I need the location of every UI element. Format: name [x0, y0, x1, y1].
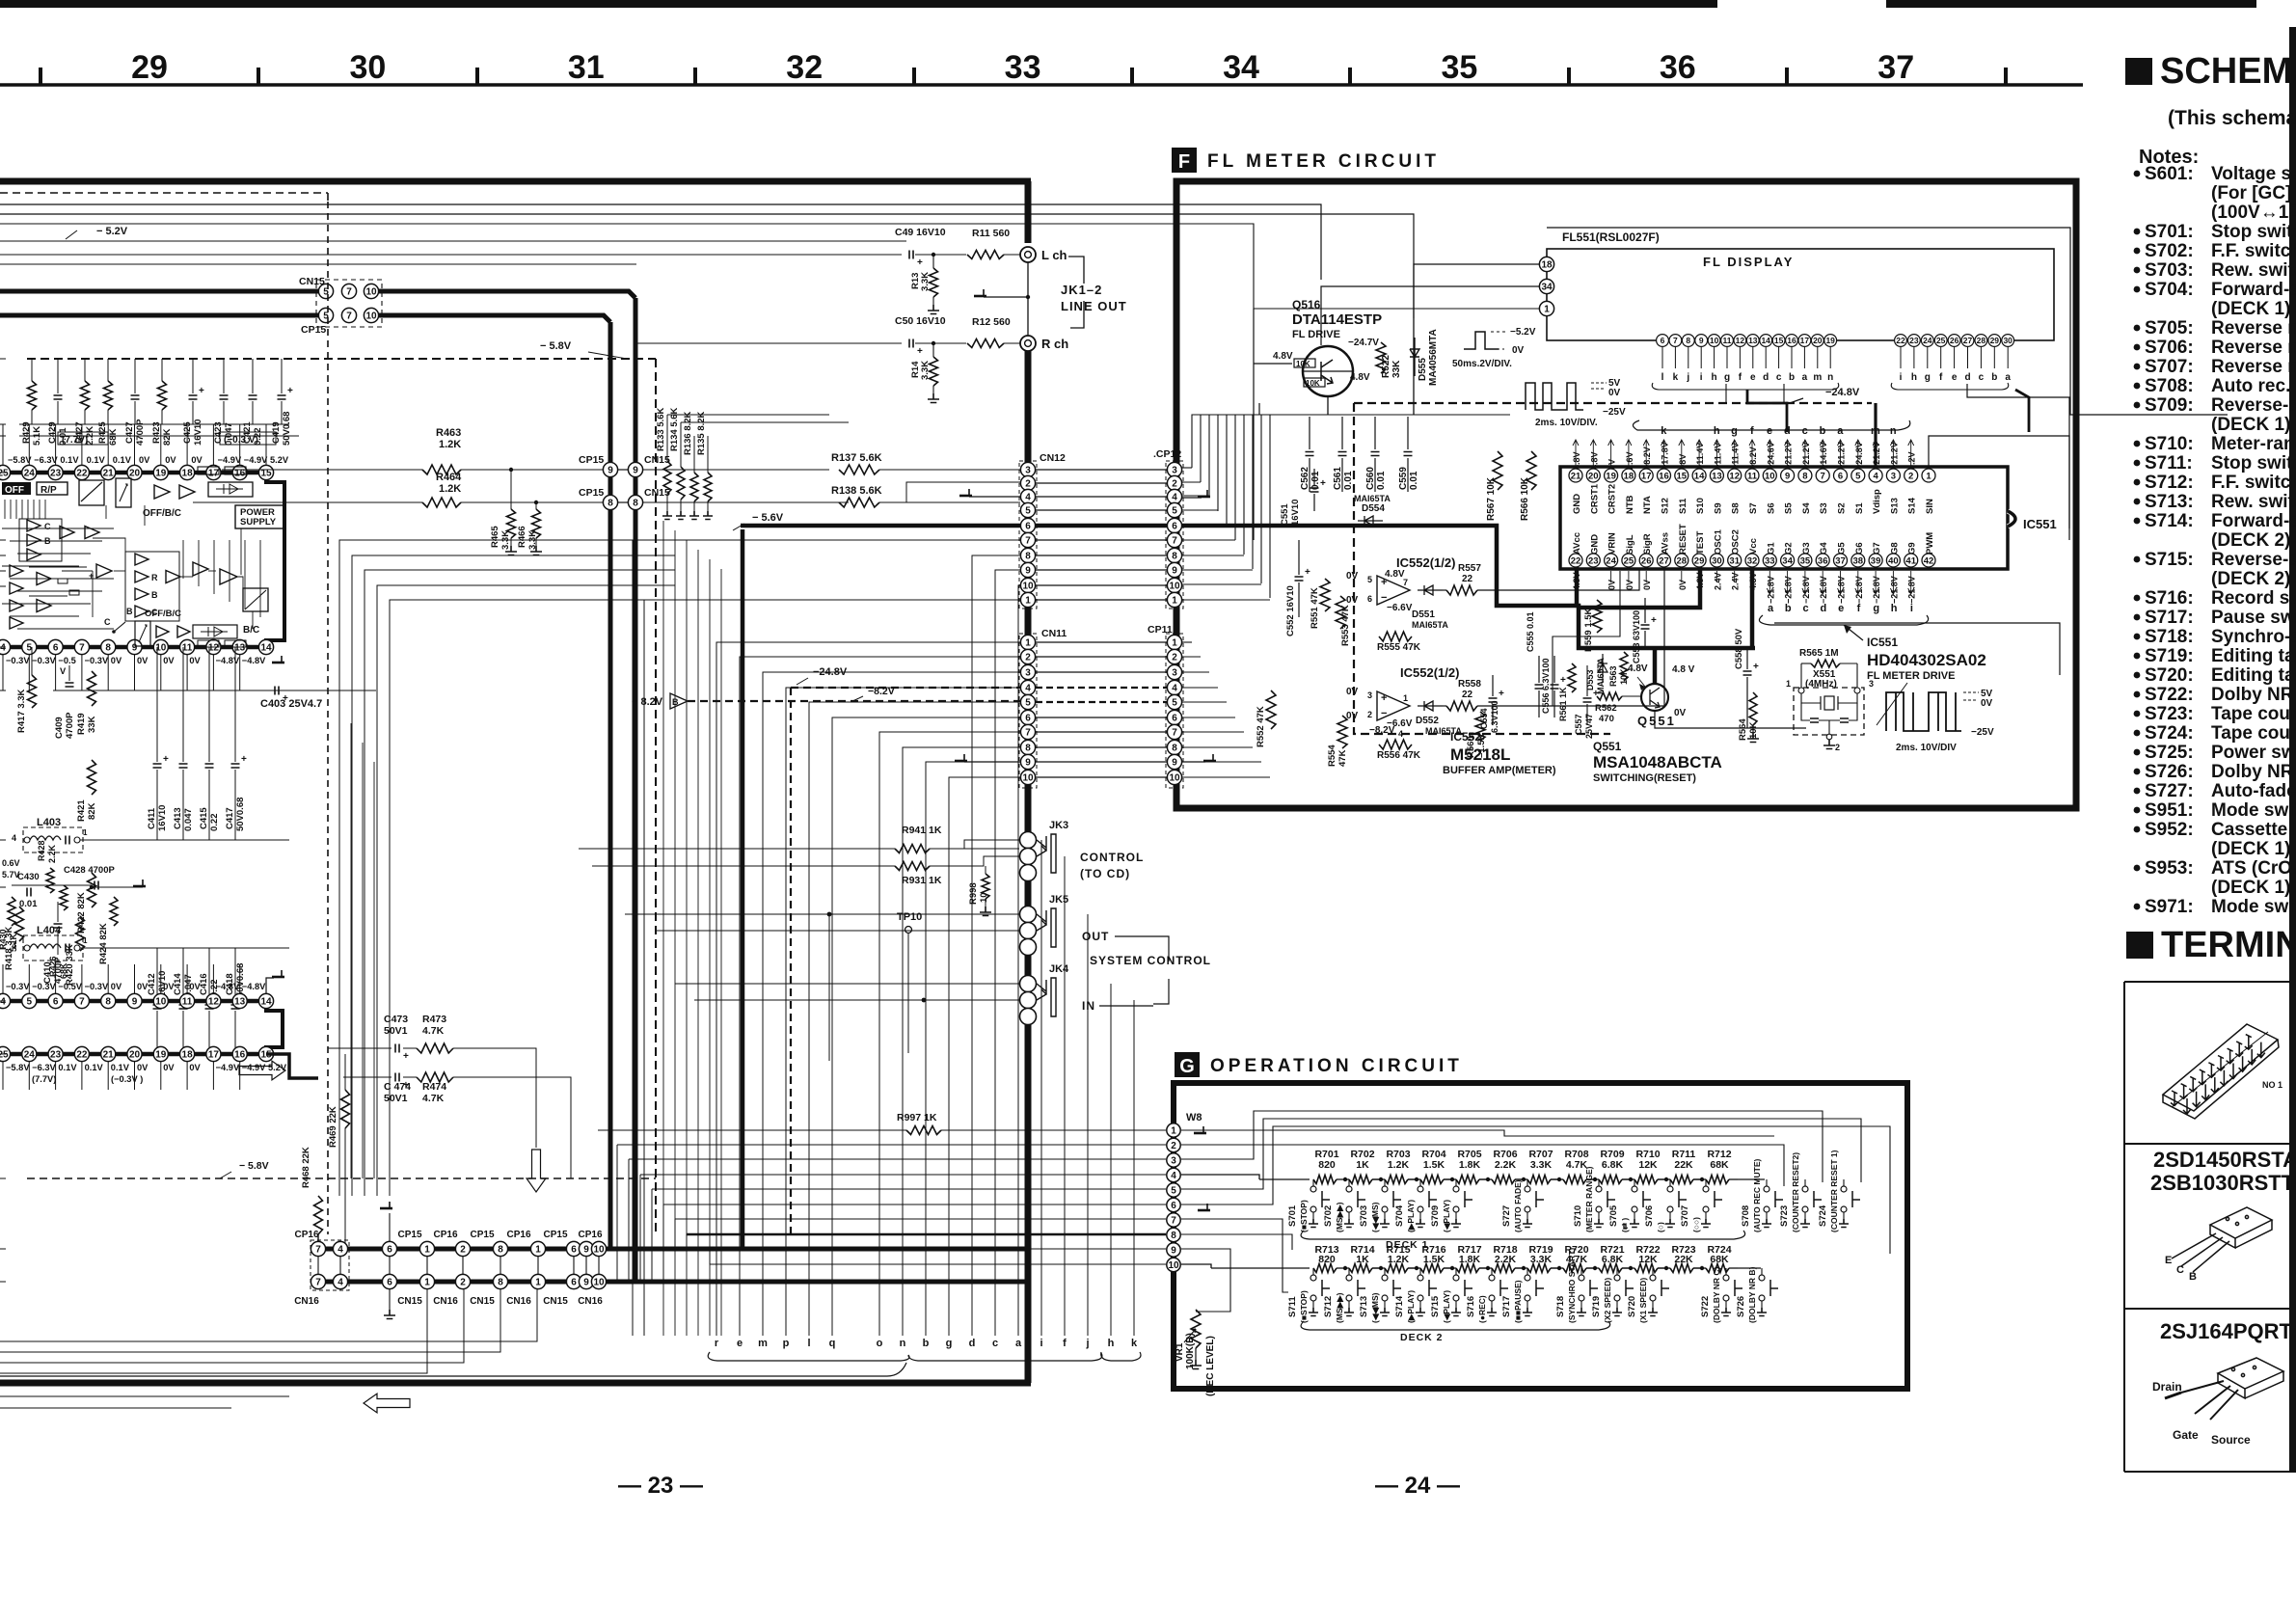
svg-text:S718: S718: [1555, 1296, 1566, 1317]
svg-text:G6: G6: [1854, 542, 1865, 555]
pot VR1: [1191, 1310, 1201, 1348]
svg-text:IC551: IC551: [2023, 517, 2057, 531]
svg-text:C553 63V100: C553 63V100: [1632, 610, 1641, 663]
svg-text:−21.2V: −21.2V: [1837, 442, 1847, 470]
svg-text:Meter-range: Meter-range: [2211, 434, 2296, 454]
svg-text:6: 6: [1661, 336, 1665, 345]
svg-text:RESET: RESET: [1678, 524, 1688, 555]
wire IC551 right loop: [1929, 436, 2069, 528]
svg-text:6.8K: 6.8K: [1602, 1159, 1624, 1171]
svg-text:−17.8V: −17.8V: [1661, 442, 1670, 470]
svg-text:1: 1: [1172, 638, 1177, 649]
svg-text:11: 11: [182, 997, 193, 1008]
svg-text:23: 23: [50, 1050, 62, 1061]
svg-text:16V10: 16V10: [1290, 500, 1301, 526]
gnd W8: [1197, 1126, 1203, 1133]
svg-text:19: 19: [155, 469, 167, 479]
page top border bar left: [0, 0, 1717, 8]
svg-text:CN12: CN12: [1040, 452, 1066, 464]
svg-text:0.1V: 0.1V: [60, 455, 79, 465]
svg-text:+: +: [403, 1080, 409, 1091]
svg-text:14: 14: [260, 643, 272, 654]
svg-text:C552 16V10: C552 16V10: [1285, 585, 1296, 636]
svg-text:D555: D555: [1418, 358, 1428, 381]
svg-text:−4.8V: −4.8V: [242, 982, 266, 991]
svg-text:12: 12: [208, 997, 220, 1008]
svg-text:(X2 SPEED): (X2 SPEED): [1603, 1278, 1612, 1323]
svg-text:4.7K: 4.7K: [422, 1025, 445, 1037]
svg-text:b: b: [1991, 372, 1997, 383]
wire comp row bottom: [19, 423, 289, 425]
thick wire CP12-6 to Q551: [1176, 526, 1755, 648]
IC551 bottom pin row: [1569, 554, 1582, 567]
svg-text:F.F. switch: F.F. switch: [2211, 241, 2296, 261]
dashed bottom join: [27, 1177, 656, 1179]
svg-text:j: j: [1085, 1338, 1089, 1349]
svg-text:9: 9: [1172, 758, 1177, 769]
svg-text:19: 19: [1825, 336, 1835, 345]
svg-text:(DOLBY NR C): (DOLBY NR C): [1712, 1266, 1721, 1323]
svg-text:− 5.2V: − 5.2V: [96, 226, 128, 237]
svg-text:8: 8: [105, 643, 111, 654]
svg-text:FL551(RSL0027F): FL551(RSL0027F): [1562, 230, 1660, 244]
wires CN11-CP11: [1036, 641, 1167, 643]
svg-text:R428: R428: [37, 840, 46, 861]
svg-text:CN15: CN15: [470, 1296, 495, 1307]
svg-text:23: 23: [1588, 555, 1599, 566]
svg-text:−6.6V: −6.6V: [1387, 603, 1413, 613]
FL display pins row2: [1895, 335, 1907, 347]
terminal DIP package drawing: [2163, 1024, 2279, 1119]
svg-text:+: +: [403, 1051, 409, 1062]
svg-text:33: 33: [1765, 555, 1775, 566]
svg-text:S713: S713: [1359, 1296, 1369, 1317]
svg-text:R556 47K: R556 47K: [1377, 750, 1421, 761]
svg-text:39: 39: [1871, 555, 1881, 566]
svg-text:R: R: [151, 573, 158, 582]
dashed vertical x340: [327, 202, 329, 1234]
resistor R998 10: [982, 874, 989, 899]
resistor 10K base2: [1304, 378, 1325, 387]
svg-text:L ch: L ch: [1041, 248, 1067, 262]
IC1 right edge: [266, 479, 284, 642]
svg-text:G7: G7: [1872, 542, 1882, 555]
svg-text:(COUNTER RESET 1): (COUNTER RESET 1): [1829, 1150, 1839, 1232]
svg-text:37: 37: [1877, 49, 1914, 86]
bus CN15 vertical: [634, 298, 638, 1282]
svg-text:36: 36: [1818, 555, 1828, 566]
svg-text:(MS▶▶): (MS▶▶): [1335, 1202, 1344, 1232]
svg-text:C554: C554: [1479, 708, 1489, 729]
connector CN15 pin 9: [628, 462, 642, 476]
svg-text:Auto rec. m: Auto rec. m: [2211, 376, 2296, 396]
IC1 upper function row: [2, 482, 31, 495]
svg-text:0V: 0V: [139, 455, 150, 465]
diode D551: [1418, 585, 1443, 595]
svg-text:7: 7: [346, 287, 352, 298]
svg-text:−25V: −25V: [1603, 407, 1626, 418]
svg-text:c: c: [1803, 603, 1809, 614]
svg-text:4.8V: 4.8V: [1273, 351, 1293, 362]
svg-text:S701: S701: [1287, 1204, 1298, 1227]
svg-text:7: 7: [346, 311, 352, 322]
svg-text:16V10: 16V10: [157, 805, 168, 831]
svg-text:JK4: JK4: [1049, 963, 1069, 975]
svg-text:R417 3.3K: R417 3.3K: [16, 689, 27, 733]
svg-text:LINE OUT: LINE OUT: [1061, 299, 1127, 313]
svg-text:S705:: S705:: [2145, 318, 2194, 338]
svg-text:20: 20: [1813, 336, 1823, 345]
svg-text:C49 16V10: C49 16V10: [895, 227, 946, 238]
svg-text:−8.2V: −8.2V: [1748, 447, 1758, 470]
svg-text:C403 25V4.7: C403 25V4.7: [260, 698, 322, 710]
svg-text:8: 8: [1025, 552, 1031, 562]
svg-text:4.8 V: 4.8 V: [1672, 664, 1695, 675]
svg-text:a: a: [1768, 603, 1774, 614]
svg-text:3.3K: 3.3K: [920, 361, 931, 380]
switches S701-S724 row1: [1310, 1186, 1316, 1192]
wire 9-9: [618, 469, 628, 471]
svg-text:0V: 0V: [137, 656, 149, 665]
svg-text:15: 15: [1677, 471, 1688, 481]
svg-text:— 24 —: — 24 —: [1375, 1473, 1460, 1499]
svg-text:820: 820: [1318, 1159, 1336, 1171]
svg-text:68K: 68K: [1710, 1254, 1729, 1265]
page top border bar right: [1886, 0, 2256, 8]
svg-text:68K: 68K: [59, 962, 68, 979]
svg-text:GND: GND: [1572, 494, 1582, 514]
svg-text:0V: 0V: [1607, 580, 1617, 590]
svg-text:24: 24: [1606, 555, 1616, 566]
svg-text:0.01: 0.01: [1343, 471, 1354, 490]
svg-text:Tape counte: Tape counte: [2211, 704, 2296, 724]
transistor Q551: [1641, 684, 1668, 711]
svg-text:4: 4: [338, 1278, 343, 1288]
svg-text:(−0.3V ): (−0.3V ): [111, 1074, 143, 1084]
svg-text:AVss: AVss: [1661, 532, 1671, 555]
svg-text:7: 7: [1673, 336, 1678, 345]
svg-text:−24.6V: −24.6V: [1766, 442, 1775, 470]
svg-text:1: 1: [1172, 596, 1177, 607]
svg-text:BUFFER AMP(METER): BUFFER AMP(METER): [1443, 765, 1556, 776]
svg-text:Pause switc: Pause switc: [2211, 608, 2296, 628]
svg-text:0V: 0V: [191, 455, 203, 465]
svg-text:IC552(1/2): IC552(1/2): [1400, 665, 1459, 680]
svg-text:p: p: [783, 1338, 790, 1349]
svg-text:DECK 1: DECK 1: [1386, 1239, 1429, 1251]
svg-text:SYSTEM CONTROL: SYSTEM CONTROL: [1090, 954, 1211, 967]
svg-text:0V: 0V: [1674, 708, 1687, 718]
svg-text:+: +: [199, 386, 204, 396]
wire fl pin1: [1253, 309, 1255, 540]
svg-text:W8: W8: [1186, 1112, 1202, 1123]
svg-text:MAI65TA: MAI65TA: [1596, 658, 1606, 694]
svg-text:3: 3: [1891, 471, 1896, 481]
svg-text:e: e: [1750, 372, 1756, 383]
resistor R555 47K: [1379, 632, 1412, 641]
svg-text:4700P: 4700P: [135, 419, 146, 446]
wire Q516 rail: [1413, 318, 1415, 415]
svg-text:G5: G5: [1837, 542, 1848, 555]
svg-text:R469 22K: R469 22K: [328, 1106, 338, 1148]
svg-text:(AUTO REC MUTE): (AUTO REC MUTE): [1752, 1158, 1762, 1232]
waveform 50ms: [1464, 332, 1499, 349]
jack JK4: [1020, 976, 1037, 992]
svg-text:(COUNTER RESET2): (COUNTER RESET2): [1791, 1152, 1800, 1232]
svg-text:11: 11: [1747, 471, 1758, 481]
svg-text:7: 7: [1821, 471, 1825, 481]
svg-text:− 5.6V: − 5.6V: [752, 512, 784, 524]
resistor R417 3.3K: [31, 647, 33, 675]
svg-text:(7.7V): (7.7V): [62, 435, 88, 446]
svg-text:Reverse mo: Reverse mo: [2211, 318, 2296, 338]
svg-text:S727: S727: [1501, 1205, 1512, 1227]
svg-text:24: 24: [1923, 336, 1932, 345]
dashed rail -5.8V: [27, 358, 656, 360]
IC1 bottom pin row 4-14: [0, 639, 11, 654]
svg-text:S8: S8: [1731, 502, 1742, 514]
wire sig row: [1504, 569, 1664, 706]
wire JK4 feeds: [675, 983, 1019, 985]
svg-text:82K: 82K: [87, 802, 97, 820]
svg-text:C429: C429: [47, 421, 58, 444]
svg-text:R465: R465: [490, 526, 500, 548]
svg-text:S727:: S727:: [2145, 781, 2194, 801]
svg-text:0V: 0V: [1608, 388, 1621, 398]
svg-text:(●REC): (●REC): [1477, 1295, 1487, 1323]
svg-text:−4.8V: −4.8V: [242, 656, 266, 665]
svg-text:4.8V: 4.8V: [1628, 663, 1648, 674]
svg-text:−0.3V: −0.3V: [32, 656, 56, 665]
svg-text:4700P: 4700P: [65, 712, 75, 739]
svg-text:(AUTO FADE): (AUTO FADE): [1513, 1179, 1523, 1232]
svg-text:0V: 0V: [111, 982, 122, 991]
svg-text:S720: S720: [1627, 1296, 1637, 1317]
svg-text:(■STOP): (■STOP): [1299, 1200, 1309, 1232]
svg-text:g: g: [1873, 603, 1879, 614]
svg-text:0V: 0V: [1625, 580, 1634, 590]
IC1 mid amp cluster C: [135, 554, 149, 565]
jack JK3: [1020, 832, 1037, 849]
pin 34 fl: [1539, 279, 1553, 293]
resistor R469 22K: [341, 1090, 350, 1128]
svg-text:S711:: S711:: [2145, 453, 2193, 474]
svg-text:0V: 0V: [163, 1063, 175, 1072]
capacitor C553: [1644, 598, 1646, 648]
svg-text:28: 28: [1977, 336, 1986, 345]
svg-text:4: 4: [1171, 1171, 1176, 1181]
resistor R551 47K: [1320, 579, 1330, 611]
svg-text:8: 8: [1171, 1231, 1176, 1241]
svg-text:R473: R473: [422, 1014, 446, 1025]
svg-text:S726: S726: [1736, 1296, 1746, 1317]
svg-text:R558: R558: [1458, 679, 1481, 690]
svg-text:S709: S709: [1430, 1205, 1441, 1227]
svg-text:R474: R474: [422, 1081, 446, 1093]
svg-text:0.2V: 0.2V: [1907, 451, 1917, 470]
svg-text:10: 10: [979, 892, 989, 903]
svg-text:0.01: 0.01: [1409, 471, 1419, 490]
svg-text:k: k: [1661, 425, 1667, 437]
svg-text:−6.3V: −6.3V: [32, 1063, 56, 1072]
IC1 bottom bus: [0, 645, 272, 650]
capacitor C557: [1583, 698, 1592, 702]
svg-text:+: +: [1753, 662, 1759, 672]
svg-text:(This schematic: (This schematic: [2168, 107, 2296, 129]
wire G loop8: [1181, 1249, 1230, 1312]
svg-text:R557: R557: [1458, 563, 1481, 574]
svg-text:IC551: IC551: [1867, 636, 1898, 649]
svg-text:R ch: R ch: [1041, 337, 1068, 351]
diode D555: [1410, 338, 1419, 376]
svg-text:1.5K: 1.5K: [1423, 1159, 1445, 1171]
svg-text:17: 17: [208, 469, 220, 479]
svg-text:68K: 68K: [1710, 1159, 1729, 1171]
capacitor C558: [1746, 648, 1748, 700]
brace DECK1: [1301, 1231, 1745, 1239]
svg-text:S710:: S710:: [2145, 434, 2194, 454]
svg-text:OFF/B/C: OFF/B/C: [143, 508, 181, 519]
svg-text:16: 16: [1787, 336, 1796, 345]
svg-text:2: 2: [1835, 743, 1840, 752]
svg-text:m: m: [758, 1338, 768, 1349]
svg-text:S706: S706: [1644, 1205, 1655, 1227]
svg-text:S5: S5: [1784, 502, 1795, 514]
resistor R561 1K: [1568, 663, 1576, 692]
svg-text:50V0.68: 50V0.68: [235, 798, 246, 831]
svg-text:3: 3: [1172, 668, 1177, 679]
svg-text:68K: 68K: [108, 428, 119, 446]
svg-text:R134 5.6K: R134 5.6K: [669, 407, 680, 451]
svg-text:2.6V: 2.6V: [1625, 451, 1634, 470]
svg-text:F.F. switch: F.F. switch: [2211, 473, 2296, 493]
svg-text:2.2K: 2.2K: [1495, 1159, 1517, 1171]
dashed box CN12: [1019, 461, 1037, 609]
svg-text:50V0.68: 50V0.68: [235, 963, 246, 997]
wire rail 274: [0, 263, 636, 265]
svg-text:Q551: Q551: [1637, 714, 1676, 728]
label (-0.3V): [220, 432, 276, 445]
svg-text:S4: S4: [1801, 502, 1812, 514]
svg-text:S712:: S712:: [2145, 473, 2194, 493]
svg-text:6: 6: [53, 997, 59, 1008]
svg-text:Reverse-sid: Reverse-sid: [2211, 395, 2296, 416]
svg-text:S6: S6: [1766, 502, 1776, 514]
svg-text:25: 25: [0, 469, 9, 479]
svg-text:S722: S722: [1700, 1296, 1711, 1317]
svg-text:50V1: 50V1: [384, 1093, 408, 1104]
svg-text:0.1V: 0.1V: [58, 1063, 77, 1072]
svg-text:6: 6: [1171, 1201, 1176, 1211]
svg-text:3: 3: [1172, 466, 1177, 476]
svg-text:Forward-sid: Forward-sid: [2211, 280, 2296, 300]
svg-text:S708:: S708:: [2145, 376, 2194, 396]
svg-text:B: B: [2189, 1271, 2197, 1283]
svg-text:h: h: [1891, 603, 1898, 614]
svg-text:G: G: [1179, 1056, 1195, 1077]
svg-text:OFF/B/C: OFF/B/C: [145, 609, 181, 619]
left block right bus lower: [1025, 351, 1032, 1383]
svg-text:R554: R554: [1327, 744, 1337, 767]
svg-text:17: 17: [1641, 471, 1652, 481]
wire R557 to IC: [1553, 571, 1620, 706]
svg-text:FL METER CIRCUIT: FL METER CIRCUIT: [1207, 151, 1440, 172]
svg-text:G3: G3: [1801, 542, 1812, 555]
IC1 extra texture wires: [2, 528, 114, 529]
svg-text:−11.4V: −11.4V: [1731, 443, 1741, 470]
svg-text:21: 21: [1571, 471, 1581, 481]
resistor R563 10K: [1620, 652, 1628, 681]
wire Q516 emitter: [1327, 396, 1329, 415]
svg-text:g: g: [1731, 425, 1738, 437]
wire rail 264 Lch: [0, 254, 902, 256]
svg-text:Record swit: Record swit: [2211, 588, 2296, 609]
svg-text:−0.3V: −0.3V: [85, 982, 109, 991]
svg-text:0.1V: 0.1V: [85, 1063, 104, 1072]
open arrow right: [239, 1061, 285, 1080]
svg-text:13: 13: [234, 997, 246, 1008]
svg-text:R421: R421: [76, 799, 87, 822]
IC2 top bus: [0, 999, 272, 1004]
svg-text:5: 5: [1172, 506, 1177, 517]
svg-text:R464: R464: [436, 472, 462, 483]
thick bus CN16: [318, 1280, 1028, 1285]
resistor R562 470: [1597, 692, 1622, 700]
wire 24.8 elbow: [1874, 403, 1877, 469]
svg-text:5.1K: 5.1K: [9, 933, 18, 952]
svg-text:S14: S14: [1907, 497, 1918, 514]
svg-text:TERMINAL: TERMINAL: [2161, 925, 2296, 965]
svg-text:1.2K: 1.2K: [439, 439, 461, 450]
resistor R419 33K: [88, 671, 96, 706]
connector CP11 pins: [1167, 635, 1181, 649]
svg-text:FL METER DRIVE: FL METER DRIVE: [1867, 670, 1955, 682]
svg-text:(SYNCHRO START): (SYNCHRO START): [1567, 1248, 1577, 1323]
svg-text:C423: C423: [213, 421, 224, 444]
svg-text:CN16: CN16: [578, 1296, 603, 1307]
svg-text:S716:: S716:: [2145, 588, 2194, 609]
svg-text:Vcc: Vcc: [1748, 538, 1759, 555]
svg-text:FL DISPLAY: FL DISPLAY: [1703, 255, 1794, 269]
svg-text:0.047: 0.047: [183, 808, 194, 831]
svg-text:4: 4: [1025, 493, 1031, 503]
svg-text:8: 8: [1802, 471, 1807, 481]
svg-text:PWM: PWM: [1925, 532, 1935, 555]
svg-text:OFF: OFF: [5, 485, 24, 496]
svg-text:30: 30: [349, 49, 386, 86]
svg-text:(◀◀MS): (◀◀MS): [1370, 1202, 1380, 1232]
svg-text:R11 560: R11 560: [972, 228, 1010, 239]
svg-text:S714:: S714:: [2145, 511, 2194, 531]
svg-text:12: 12: [208, 643, 220, 654]
svg-text:C411: C411: [147, 807, 157, 829]
svg-text:Q516: Q516: [1292, 298, 1321, 311]
svg-text:G8: G8: [1889, 542, 1900, 555]
ruler line: [0, 83, 2083, 87]
svg-text:23: 23: [1909, 336, 1919, 345]
ruler ticks: [39, 68, 42, 85]
wire fl to ic551 a: [1725, 384, 1727, 403]
svg-text:26: 26: [1641, 555, 1652, 566]
svg-text:(DOLBY NR B): (DOLBY NR B): [1747, 1266, 1757, 1323]
svg-text:10: 10: [1169, 582, 1180, 592]
crystal X551: [1794, 688, 1864, 735]
svg-text:+: +: [1381, 692, 1387, 704]
FL display pins row1: [1657, 335, 1669, 347]
wire G top loop1: [1181, 1130, 1774, 1136]
svg-text:0V: 0V: [189, 656, 201, 665]
bus CP15 vertical: [608, 322, 613, 1249]
